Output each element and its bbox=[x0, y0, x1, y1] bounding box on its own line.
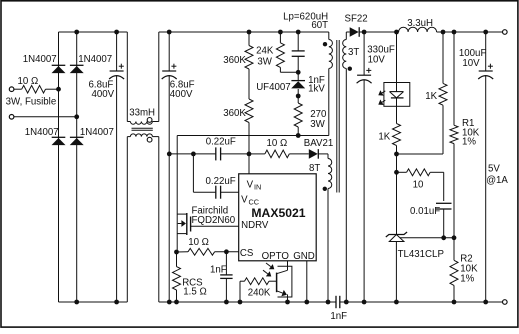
svg-text:FQD2N60: FQD2N60 bbox=[192, 215, 236, 226]
wire BAV21 to bias winding bbox=[319, 153, 328, 155]
junction UF4007 anode bbox=[296, 94, 301, 99]
wire top rail mid segment bbox=[159, 31, 329, 33]
wire comp branch bbox=[397, 171, 407, 173]
svg-text:10V: 10V bbox=[368, 54, 386, 65]
junction VIN node bbox=[247, 152, 252, 157]
junction gnd rail cap2 bbox=[167, 300, 172, 305]
capacitor 330uF 10V bbox=[363, 32, 365, 75]
svg-text:360K: 360K bbox=[223, 55, 246, 66]
resistor 10 ohm VCC bbox=[265, 150, 289, 158]
junction 24K top bbox=[278, 30, 283, 35]
junction gnd rail RCS bbox=[174, 300, 179, 305]
svg-text:400V: 400V bbox=[170, 89, 193, 100]
svg-text:0.01uF: 0.01uF bbox=[410, 206, 440, 217]
opto light arrow 2 bbox=[263, 270, 268, 274]
resistor 1K bias bbox=[442, 32, 444, 83]
resistor 10 ohm fusible bbox=[22, 85, 46, 93]
junction TL431 anode bbox=[394, 300, 399, 305]
resistor 10 comp bbox=[407, 169, 431, 176]
svg-text:24K: 24K bbox=[256, 46, 274, 57]
svg-text:1N4007: 1N4007 bbox=[23, 54, 57, 65]
wire NDRV to gate bbox=[191, 225, 239, 227]
diode D3 1N4007 bbox=[52, 136, 66, 138]
svg-text:1nF: 1nF bbox=[330, 311, 347, 322]
junction colB top bbox=[74, 30, 79, 35]
svg-text:1N4007: 1N4007 bbox=[80, 127, 114, 138]
junction node A bbox=[394, 152, 399, 157]
wire comp corner bbox=[430, 171, 444, 173]
wire top rail left segment bbox=[59, 31, 128, 33]
svg-text:1.5 Ω: 1.5 Ω bbox=[183, 286, 206, 297]
wire bridge column B bbox=[76, 32, 78, 302]
junction vin row cap branch bbox=[191, 152, 196, 157]
junction cap1 top bbox=[114, 30, 119, 35]
svg-text:0.22uF: 0.22uF bbox=[206, 176, 236, 187]
junction vin row at gnd rail bbox=[167, 152, 172, 157]
junction gnd rail 1nF bbox=[224, 300, 229, 305]
capacitor 0.22uF VCC bbox=[215, 186, 217, 199]
capacitor 100uF 10V bbox=[485, 32, 487, 71]
svg-text:1N4007: 1N4007 bbox=[25, 127, 59, 138]
svg-text:1K: 1K bbox=[378, 132, 390, 143]
junction 330uF bottom bbox=[362, 300, 367, 305]
opto LED bbox=[396, 83, 398, 92]
svg-text:10: 10 bbox=[413, 180, 424, 191]
transformer secondary winding bbox=[345, 32, 347, 40]
junction colB bottom bbox=[74, 300, 79, 305]
junction gnd rail bias winding bbox=[326, 300, 331, 305]
transformer bias winding 8T bbox=[328, 159, 332, 189]
diode UF4007 bbox=[297, 72, 299, 80]
wire drain vertical bbox=[176, 136, 178, 253]
svg-text:MAX5021: MAX5021 bbox=[251, 206, 305, 220]
svg-text:1kV: 1kV bbox=[308, 83, 325, 94]
junction bridge left mid bbox=[56, 87, 61, 92]
junction 100uF top bbox=[483, 30, 488, 35]
opto LED light arrow 2 bbox=[382, 100, 385, 102]
wire AC bottom to bridge right node bbox=[14, 116, 77, 118]
svg-text:3.3uH: 3.3uH bbox=[407, 18, 433, 29]
svg-text:1%: 1% bbox=[462, 137, 476, 148]
svg-text:10 Ω: 10 Ω bbox=[267, 138, 288, 149]
svg-text:10V: 10V bbox=[462, 58, 480, 69]
resistor RCS 1.5 ohm bbox=[176, 252, 178, 267]
capacitor 1nF Y bbox=[335, 296, 337, 308]
svg-text:1K: 1K bbox=[425, 91, 437, 102]
wire primary bottom to drain bbox=[177, 135, 329, 137]
wire VIN node to 10ohm bbox=[249, 153, 265, 155]
choke L1 upper winding bbox=[126, 32, 128, 122]
svg-text:IN: IN bbox=[254, 182, 261, 191]
choke core bbox=[132, 127, 153, 129]
AC input terminal bottom bbox=[9, 115, 14, 120]
svg-text:3T: 3T bbox=[348, 47, 359, 58]
wire 5V rail seg1 bbox=[364, 31, 399, 33]
svg-text:3W, Fusible: 3W, Fusible bbox=[6, 97, 57, 108]
junction CS filter bbox=[224, 249, 229, 254]
inductor 3.3uH bbox=[399, 27, 437, 32]
transformer secondary phase dot bbox=[348, 67, 352, 71]
capacitor C2 6.8uF 400V bbox=[168, 32, 170, 71]
junction comp branch bbox=[394, 170, 399, 175]
opto LED light arrow 1 bbox=[382, 91, 385, 93]
wire AC top to fusible resistor bbox=[14, 88, 22, 90]
transistor TL431CLP bbox=[386, 232, 407, 237]
junction gnd rail IC GND bbox=[304, 300, 309, 305]
svg-text:TL431CLP: TL431CLP bbox=[398, 249, 444, 260]
svg-text:5V: 5V bbox=[488, 163, 500, 174]
diode BAV21 bbox=[309, 149, 318, 159]
svg-text:33mH: 33mH bbox=[129, 108, 155, 119]
resistor R2 10K 1% bbox=[453, 238, 455, 260]
svg-text:400V: 400V bbox=[92, 89, 115, 100]
wire LED to 1K bbox=[396, 106, 398, 123]
junction 100uF bottom bbox=[483, 300, 488, 305]
diode D2 1N4007 bbox=[70, 64, 84, 66]
junction opto led top bbox=[394, 30, 399, 35]
capacitor C1 6.8uF 400V bbox=[116, 32, 118, 71]
resistor 270 3W bbox=[297, 96, 299, 103]
junction 1K top bbox=[441, 30, 446, 35]
svg-text:10 Ω: 10 Ω bbox=[18, 76, 39, 87]
junction R1 top bbox=[452, 30, 457, 35]
svg-text:3W: 3W bbox=[257, 57, 272, 68]
wire bottom rail mid segment bbox=[159, 301, 336, 303]
diode D4 1N4007 bbox=[70, 136, 84, 138]
svg-text:1%: 1% bbox=[460, 273, 474, 284]
svg-text:1nF: 1nF bbox=[210, 265, 227, 276]
svg-text:3W: 3W bbox=[310, 119, 325, 130]
AC input terminal top bbox=[9, 87, 14, 92]
wire bridge column A bbox=[58, 32, 60, 302]
junction R1 R2 ref bbox=[452, 235, 457, 240]
svg-text:NDRV: NDRV bbox=[241, 220, 269, 231]
junction R2 bottom bbox=[452, 300, 457, 305]
wire fusible resistor to bridge node bbox=[46, 88, 59, 90]
diode D1 1N4007 bbox=[52, 64, 66, 66]
opto light arrow 1 bbox=[266, 263, 271, 267]
wire vin row left bbox=[169, 153, 216, 155]
capacitor 1nF CS bbox=[225, 252, 227, 275]
resistor 24K 3W bbox=[279, 32, 281, 43]
wire bottom rail left segment bbox=[59, 301, 128, 303]
junction snubber cap top bbox=[296, 30, 301, 35]
wire REF row bbox=[400, 237, 454, 239]
svg-text:60T: 60T bbox=[311, 20, 328, 31]
choke phase dot upper bbox=[147, 118, 152, 123]
svg-text:1N4007: 1N4007 bbox=[78, 54, 112, 65]
wire 5V rail seg2 bbox=[437, 31, 503, 33]
resistor 240K bbox=[239, 281, 241, 302]
wire node A to 1K bias bbox=[397, 153, 444, 155]
svg-text:BAV21: BAV21 bbox=[304, 138, 333, 149]
resistor 360K upper bbox=[248, 32, 250, 46]
junction cap2 top bbox=[167, 30, 172, 35]
junction secondary return bbox=[344, 300, 349, 305]
wire vin row right bbox=[221, 153, 249, 155]
svg-text:240K: 240K bbox=[248, 288, 271, 299]
svg-text:V: V bbox=[247, 180, 254, 191]
resistor 1K opto bbox=[393, 124, 401, 146]
wire OPTO pin bbox=[287, 261, 289, 271]
svg-text:UF4007: UF4007 bbox=[256, 82, 290, 93]
resistor 10 ohm CS bbox=[188, 248, 215, 255]
transformer primary phase dot bbox=[323, 42, 327, 46]
choke phase dot lower bbox=[147, 137, 152, 142]
svg-text:0.22uF: 0.22uF bbox=[206, 137, 236, 148]
junction snubber node bbox=[296, 70, 301, 75]
wire 240K to base bbox=[269, 280, 277, 282]
junction gnd rail 240K bbox=[238, 300, 243, 305]
svg-text:10 Ω: 10 Ω bbox=[188, 237, 209, 248]
junction comp to ref bbox=[441, 235, 446, 240]
svg-text:@1A: @1A bbox=[486, 175, 508, 186]
opto transistor bracket bbox=[278, 266, 292, 297]
opto transistor emitter bbox=[277, 291, 283, 293]
svg-text:SF22: SF22 bbox=[345, 14, 368, 25]
wire opto led lead bbox=[396, 32, 398, 83]
capacitor snubber 1nF 1kV bbox=[297, 32, 299, 51]
op-amp U1 MAX5021 box bbox=[239, 174, 317, 261]
junction 360K top bbox=[247, 30, 252, 35]
wire VIN stub bbox=[248, 154, 250, 174]
wire GND pin bbox=[306, 261, 308, 302]
resistor R1 10K 1% bbox=[453, 32, 455, 125]
svg-text:360K: 360K bbox=[223, 108, 246, 119]
transformer bias phase dot bbox=[323, 187, 327, 191]
svg-text:OPTO: OPTO bbox=[262, 251, 290, 262]
svg-text:GND: GND bbox=[293, 251, 315, 262]
wire vcc branch bbox=[192, 154, 194, 192]
svg-text:V: V bbox=[241, 195, 248, 206]
wire secondary gnd rail bbox=[340, 301, 503, 303]
resistor 360K lower bbox=[245, 99, 253, 123]
output terminal minus bbox=[503, 300, 508, 305]
opto transistor collector bbox=[277, 270, 288, 273]
choke L1 lower winding bbox=[126, 137, 128, 302]
diode SF22 bbox=[346, 31, 349, 33]
junction 330uF top bbox=[362, 30, 367, 35]
opto LED box bbox=[384, 83, 410, 107]
wire 10ohm CS to IC bbox=[215, 251, 239, 253]
opto transistor base bar bbox=[276, 273, 278, 293]
junction gnd rail opto emitter bbox=[285, 300, 290, 305]
capacitor 0.01uF bbox=[436, 202, 452, 204]
junction cap1 bottom bbox=[114, 300, 119, 305]
junction 270 bottom bbox=[296, 133, 301, 138]
transistor Q1 FQD2N60 bbox=[177, 213, 187, 215]
svg-text:CS: CS bbox=[240, 248, 254, 259]
capacitor 0.22uF VIN bbox=[215, 147, 217, 160]
transformer primary winding bbox=[328, 32, 330, 40]
svg-text:8T: 8T bbox=[309, 163, 320, 174]
wire source to CS row bbox=[177, 251, 189, 253]
wire 10ohm to BAV21 bbox=[289, 153, 309, 155]
transformer core bbox=[336, 40, 338, 193]
junction bridge right mid bbox=[74, 114, 79, 119]
wire node A to TL431 bbox=[396, 154, 398, 235]
output terminal plus bbox=[503, 30, 508, 35]
junction source RCS bbox=[174, 250, 179, 255]
wire 1K to node A bbox=[396, 146, 398, 155]
wire vcc to IC bbox=[221, 191, 239, 193]
